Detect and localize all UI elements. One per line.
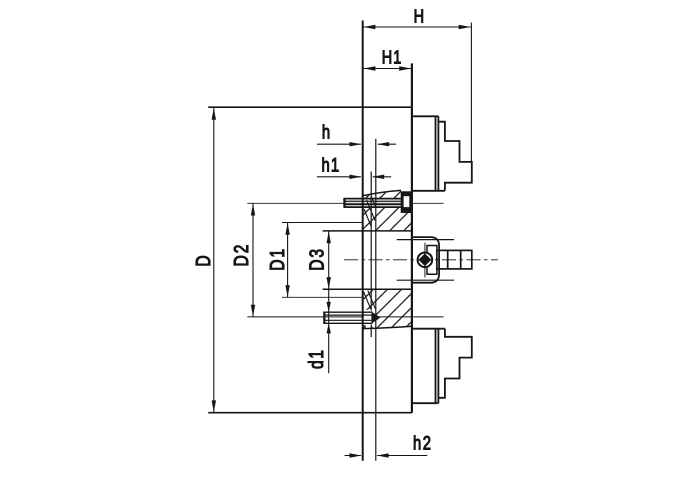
dimension h1 leader — [317, 175, 391, 179]
bottom master jaw — [412, 329, 445, 404]
dimension H — [363, 25, 471, 29]
dimension D3 and d1 shared line — [328, 231, 330, 373]
svg-text:D3: D3 — [306, 247, 328, 271]
pinion pilot circle — [418, 252, 433, 267]
pinion boss outline — [412, 237, 439, 283]
rear adapter face line h/h2 — [375, 139, 377, 461]
main centerline — [344, 259, 498, 261]
rear adapter face line h1 — [370, 172, 372, 338]
bottom stepped jaw — [438, 329, 471, 398]
pin inner lines — [324, 315, 372, 320]
dimension D3 arrows — [327, 231, 331, 289]
svg-text:H: H — [414, 6, 424, 27]
svg-text:H1: H1 — [382, 47, 403, 68]
rear adapter ring hatch upper — [364, 197, 376, 226]
D2 bottom extension / pin axis line — [247, 316, 443, 318]
D1 bottom extension line — [282, 296, 364, 298]
lower flange bottom curve — [363, 326, 412, 328]
mounting screw shank — [344, 199, 401, 208]
screw thread lines — [345, 201, 401, 204]
lower flange hatched section — [360, 288, 414, 332]
dimension D2 — [251, 203, 255, 317]
D3 top extension / bore top edge — [323, 230, 412, 232]
pinion collar — [427, 246, 437, 275]
D2 top extension / screw axis line — [247, 202, 443, 204]
top stepped jaw — [438, 122, 471, 191]
svg-text:h1: h1 — [322, 155, 341, 176]
svg-text:D2: D2 — [230, 243, 252, 267]
pin cone point — [372, 312, 381, 324]
svg-text:d1: d1 — [305, 349, 327, 369]
screw left end cap — [343, 198, 345, 208]
screw head block — [401, 191, 413, 213]
dimension H1 — [363, 66, 411, 70]
D1 top extension line — [282, 222, 364, 224]
H right extension line — [470, 23, 472, 162]
screw head socket notch — [404, 196, 410, 207]
dimension h leader — [317, 142, 396, 146]
pinion square socket diamond — [419, 253, 432, 266]
dimension D — [212, 108, 216, 413]
dimension d1 arrows — [327, 302, 331, 334]
pinion square shaft — [437, 250, 472, 269]
body top face with D top extension — [208, 106, 412, 108]
body front face line — [411, 63, 413, 412]
svg-text:D1: D1 — [266, 247, 288, 271]
dimension h2 — [345, 453, 428, 457]
D3 bottom extension / bore bottom edge — [323, 288, 412, 290]
dimension D1 — [285, 223, 289, 298]
svg-text:D: D — [192, 255, 214, 266]
pin left end cap — [323, 312, 325, 324]
upper flange top curve — [363, 190, 401, 195]
pinion bore edge top — [397, 239, 454, 241]
body back face line — [362, 21, 364, 461]
svg-text:h2: h2 — [413, 433, 433, 454]
pinion vertical centerline — [424, 243, 426, 278]
svg-text:h: h — [322, 122, 330, 143]
pinion bore edge bottom — [397, 279, 454, 281]
locating pin cylinder — [324, 312, 373, 323]
upper flange hatched section — [360, 186, 414, 234]
rear adapter ring hatch lower — [364, 291, 376, 329]
white pin hole in adapter ring — [364, 310, 371, 326]
top master jaw — [412, 116, 445, 191]
body bottom face with D bottom extension — [208, 412, 412, 414]
